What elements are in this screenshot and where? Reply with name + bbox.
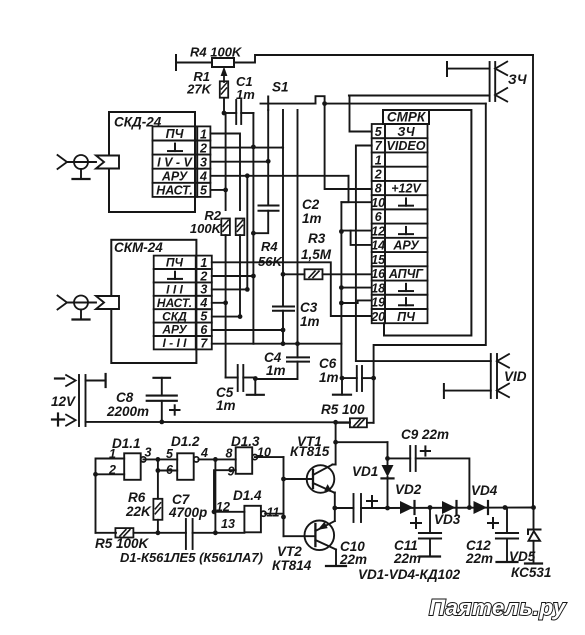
svg-text:VD5: VD5 [509, 549, 536, 564]
block СКД-24 outline [109, 112, 195, 212]
label C10 [340, 539, 365, 554]
svg-text:VD1: VD1 [352, 464, 378, 479]
label R1 [193, 69, 210, 84]
label 1m value of C6 [319, 370, 339, 385]
pin number box 18 of СМРК [372, 281, 385, 295]
terminal bar on 12V minus [104, 374, 106, 387]
capacitor C10 22m plates [354, 494, 362, 522]
node pin 18 ground junction [339, 285, 344, 290]
svg-text:9: 9 [228, 465, 235, 479]
pin number box 10 of СМРК [372, 195, 385, 209]
pin number 6 of СМРК [375, 210, 383, 224]
svg-text:R6: R6 [128, 490, 146, 505]
wire СМРК pin 5 ЗЧ [350, 96, 372, 132]
wire VID ground lead [444, 390, 491, 392]
pin number 4 of СКД-24 [199, 170, 207, 184]
capacitor C12 22m plates [496, 533, 518, 539]
wire C6 to R5 [373, 378, 375, 423]
pin name НАСТ. of СКМ-24 [157, 296, 192, 310]
wire +12V rail [86, 421, 351, 423]
block СМРК pin name table [385, 124, 428, 323]
pin number box 6 of СКМ-24 [196, 323, 212, 336]
svg-text:D1.1: D1.1 [112, 436, 141, 451]
label S1 [272, 80, 289, 95]
label VD2 [395, 482, 422, 497]
wire S1 line crossover bump [316, 96, 325, 103]
svg-text:C3: C3 [300, 300, 318, 315]
pin number box 15 of СМРК [372, 252, 385, 266]
pin 6 of D1.2 [166, 463, 174, 477]
node R4 56K to СКМ СКД pin [238, 314, 243, 319]
antenna input 1 arrow [58, 155, 68, 169]
label plus of C10 [367, 496, 377, 506]
svg-text:R5 100K: R5 100K [95, 536, 150, 551]
ground below C5 [247, 379, 264, 395]
label КТ814 value of VT2 [272, 558, 312, 573]
pin number 1 of СКД-24 [200, 127, 207, 141]
connector 12V body bars [79, 375, 86, 426]
label 22m value of C10 [339, 552, 367, 567]
capacitor C11 22m plates [419, 533, 441, 539]
antenna 2 plug into СКМ-24 [96, 296, 119, 309]
wire C1 right lead [241, 112, 253, 114]
svg-text:1m: 1m [319, 370, 339, 385]
label VD3 [434, 512, 461, 527]
wire C2 top lead [267, 161, 269, 205]
pin number 6 of СКМ-24 [200, 323, 208, 337]
connector ЗЧ terminal bar [446, 62, 448, 76]
svg-text:СКД: СКД [162, 309, 187, 323]
node R6/D1.2 pin6 junction [156, 468, 161, 473]
resistor R4 100K (potentiometer) [212, 58, 234, 67]
antenna 2 coax connector circle [74, 296, 88, 310]
pin number 1 of СМРК [375, 153, 382, 167]
node VT1 base junction [281, 477, 286, 482]
connector 12V minus arrow [66, 375, 76, 386]
wire D1.1 output to D1.2 pin 5 [143, 458, 177, 460]
pin number box 2 of СМРК [372, 167, 385, 181]
pin name АРУ of СКМ-24 [161, 323, 187, 337]
wire VT1 collector to VD1 [336, 442, 388, 465]
pin 3 of D1.1 [145, 446, 152, 460]
label minus of 12V input [55, 377, 64, 379]
connector ЗЧ bottom pin arrow [495, 88, 507, 102]
pin 11 of D1.4 [267, 506, 280, 520]
pin name ПЧ of СКМ-24 [166, 256, 184, 270]
node C2 to ground bus [251, 231, 256, 236]
svg-text:3: 3 [200, 155, 207, 169]
wire C11 top lead [429, 508, 431, 534]
pin name I - I I of СКМ-24 [163, 336, 188, 350]
svg-text:КС531: КС531 [511, 565, 551, 580]
pin 12 of D1.4 [216, 500, 230, 514]
pin number box 3 of СКМ-24 [196, 282, 212, 295]
pin symbol ⊥ СМРК pin 12 [399, 227, 413, 234]
svg-text:ЗЧ: ЗЧ [508, 72, 527, 87]
node C12 top junction [503, 505, 508, 510]
pin number box 4 of СКМ-24 [196, 296, 212, 309]
pin symbol ⊥ СМРК pin 19 [399, 298, 413, 305]
svg-text:R4: R4 [261, 239, 278, 254]
pin number box 5 of СКД-24 [197, 183, 210, 197]
svg-text:18: 18 [371, 281, 385, 295]
wire VT1 collector [333, 422, 336, 464]
label R3 [308, 231, 326, 246]
wire C8 top lead [161, 378, 163, 396]
wire D1.2 output to D1.3 pin 8 [198, 458, 235, 460]
svg-text:3: 3 [200, 283, 207, 297]
svg-text:5: 5 [375, 125, 383, 139]
pin number box 8 of СМРК [372, 181, 385, 195]
label VT1 [297, 434, 322, 449]
label D1.2 [171, 434, 200, 449]
resistor R5 100 [350, 418, 367, 427]
pin number box 5 of СМРК [372, 124, 385, 138]
node СКМ pin 3 junction [245, 287, 250, 292]
wire СКМ pin 1 ПЧ to СМРК pin 20 [212, 262, 372, 316]
wire R5 left lead [336, 422, 350, 424]
capacitor C5 1m plates [238, 365, 244, 391]
node D1.1 output junction [156, 457, 161, 462]
pin symbol ⊥ СКМ-24 pin 2 [168, 272, 182, 279]
svg-text:I V - V: I V - V [157, 155, 193, 169]
resistor R6 22K [153, 499, 162, 520]
label 2200m value of C8 [106, 404, 149, 419]
label 1,5M value of R3 [301, 247, 332, 262]
wire СКД pin 5 НАСТ [210, 189, 225, 191]
label R4 100K [190, 45, 243, 60]
svg-text:КТ814: КТ814 [272, 558, 312, 573]
svg-text:АРУ: АРУ [392, 239, 420, 253]
wire right rail down to rectifier node [532, 55, 534, 508]
svg-text:22K: 22K [125, 504, 152, 519]
switch S1 terminal bar [267, 97, 269, 111]
pin 1 of D1.1 [109, 447, 116, 461]
pin number 10 of СМРК [371, 196, 385, 210]
wire D1.1 input pins 1-2 [96, 459, 125, 533]
pin number box 7 of СМРК [372, 138, 385, 152]
label plus of C8 [170, 405, 180, 414]
pin symbol ⊥ СМРК pin 10 [399, 198, 413, 205]
logic gate D1.1 [124, 453, 146, 480]
pin number 7 of СКМ-24 [200, 336, 208, 350]
wire СКД pin 1 ПЧ [210, 134, 240, 211]
label VD4 [471, 483, 498, 498]
label R6 [128, 490, 146, 505]
label 27K value of R1 [186, 82, 212, 97]
wire АРУ line corner to pin 10 [341, 176, 348, 202]
pin name I V - V of СКД-24 [157, 155, 193, 169]
svg-text:R3: R3 [308, 231, 326, 246]
node СКМ pin 2 ground junction [251, 274, 256, 279]
wire C1 bus down [252, 113, 254, 344]
block СМРК title box [383, 110, 429, 124]
block СКМ-24 outline [111, 240, 196, 363]
wire СКМ pin 2 ⊥ [212, 275, 254, 277]
svg-text:СКМ-24: СКМ-24 [114, 240, 163, 255]
pin number box 1 of СМРК [372, 152, 385, 166]
wire output node line [335, 507, 354, 509]
svg-text:Паятель.ру: Паятель.ру [429, 595, 567, 620]
diode VD4 [474, 501, 489, 514]
node VT1 collector to rail [333, 420, 338, 425]
wire S1 line [261, 103, 316, 105]
wire C6 left lead [342, 377, 357, 379]
svg-text:КТ815: КТ815 [290, 444, 330, 459]
node IV-V junction [266, 159, 271, 164]
wire СМРК pin 19 ⊥ [341, 300, 371, 303]
wire band bus down from S1 area [282, 110, 284, 274]
pin name +12V of СМРК pin 8 [391, 182, 422, 196]
svg-text:+12V: +12V [391, 182, 422, 196]
antenna 1 plug into СКД-24 [96, 156, 119, 169]
pin number box 4 of СКД-24 [197, 169, 210, 183]
node СКМ НАСТ junction [223, 300, 228, 305]
pin number 12 of СМРК [371, 224, 385, 238]
wire АРУ bus down [246, 176, 248, 290]
diode VD1 [382, 465, 394, 508]
label plus of C9 [421, 446, 430, 455]
node VD1 bottom junction [385, 506, 390, 511]
pin 4 of D1.2 [200, 446, 208, 460]
pin number 3 of СКД-24 [200, 155, 207, 169]
wire R5 100K feedback line [96, 532, 117, 534]
wire R4 56K bus lower [239, 235, 241, 317]
svg-text:VID: VID [504, 369, 527, 384]
ground below antenna 1 [73, 169, 90, 179]
wire C4 top lead [297, 344, 299, 358]
label VT2 [277, 544, 302, 559]
wire СКД pin 4 АРУ line [210, 175, 348, 177]
label VD1-VD4 type [358, 567, 461, 582]
svg-text:НАСТ.: НАСТ. [156, 183, 193, 197]
svg-text:D1.4: D1.4 [233, 488, 262, 503]
pin number box 7 of СКМ-24 [196, 336, 212, 349]
node D1.2 output junction [213, 457, 218, 462]
svg-text:1,5M: 1,5M [301, 247, 332, 262]
wire C5 left lead [226, 377, 238, 379]
svg-text:6: 6 [375, 210, 383, 224]
label 100K value of R2 [190, 221, 223, 236]
wire base bus down [283, 457, 285, 536]
svg-text:АРУ: АРУ [161, 323, 187, 337]
label R5 100 [321, 402, 365, 417]
wire R4 wiper arrow [221, 67, 228, 83]
label C9 22m [401, 427, 449, 442]
svg-text:20: 20 [370, 310, 385, 324]
svg-text:VD1-VD4-КД102: VD1-VD4-КД102 [358, 567, 461, 582]
svg-text:СМРК: СМРК [387, 110, 427, 125]
wire C4 bottom lead [255, 362, 297, 379]
wire R4 right lead to top rail [234, 55, 533, 63]
wire C9 right lead [416, 458, 470, 507]
svg-text:11: 11 [267, 506, 280, 520]
logic gate D1.4 [244, 506, 266, 533]
svg-text:5: 5 [200, 310, 208, 324]
pin name НАСТ. of СКД-24 [156, 183, 193, 197]
svg-text:10: 10 [371, 196, 385, 210]
label КТ815 value of VT1 [290, 444, 330, 459]
connector VID top pin arrow [497, 354, 509, 368]
pin name ПЧ of СМРК pin 20 [397, 310, 416, 324]
transistor VT1 КТ815 [307, 465, 335, 493]
capacitor C1 1m plates [236, 100, 241, 124]
label СМРК [387, 110, 427, 125]
label C2 [302, 197, 320, 212]
node C6 right junction [371, 376, 376, 381]
label D1.3 [231, 434, 260, 449]
wire ground line [253, 343, 341, 345]
diode VD3 [442, 501, 457, 514]
capacitor C4 1m plates [287, 357, 309, 361]
wire C11 bottom lead [429, 539, 431, 557]
svg-text:27K: 27K [186, 82, 212, 97]
resistor R3 1,5M [305, 269, 323, 279]
node D1.1 pins junction [93, 472, 98, 477]
wire C5 right lead [243, 377, 255, 379]
svg-text:R5 100: R5 100 [321, 402, 365, 417]
node VD5 top junction [531, 505, 536, 510]
pin number 2 of СКД-24 [199, 141, 207, 155]
svg-text:I - I I: I - I I [163, 336, 188, 350]
wire band bus 2 down from S1 area [297, 110, 299, 344]
pin number 5 of СКД-24 [200, 184, 208, 198]
wire R3 right lead to АПЧГ pin 16 [323, 273, 372, 275]
label 12V [51, 394, 76, 409]
label R5 100K [95, 536, 150, 551]
pin symbol ⊥ СКД-24 pin 2 [168, 144, 182, 152]
pin number box 1 of СКД-24 [197, 126, 210, 140]
wire СМРК pin 7 VIDEO [356, 146, 372, 362]
block СКД-24 signal table [153, 126, 198, 196]
capacitor C8 2200m plates [147, 396, 177, 401]
pin number 15 of СМРК [371, 253, 386, 267]
svg-text:12V: 12V [51, 394, 76, 409]
wire IV-V band line from S1 [267, 110, 269, 161]
pin number box 16 of СМРК [372, 266, 385, 280]
wire C12 bottom lead [506, 539, 508, 563]
wire C2 bottom lead [253, 211, 268, 234]
svg-text:2: 2 [374, 168, 382, 182]
ground below VT2 [326, 565, 346, 567]
svg-text:4: 4 [200, 446, 208, 460]
node C6 left junction [340, 376, 345, 381]
watermark Паятель.ру [429, 595, 567, 620]
logic gate D1.3 [236, 447, 258, 474]
label C1 [236, 74, 253, 89]
wire СМРК pin 18 ⊥ [341, 287, 371, 289]
svg-text:VT2: VT2 [277, 544, 302, 559]
wire D1.4 output [265, 513, 283, 515]
wire C9 left lead [388, 457, 411, 459]
label plus of C12 [488, 518, 498, 528]
svg-text:19: 19 [371, 296, 385, 310]
node C8 on +12V rail [159, 420, 164, 425]
pin 9 of D1.3 [228, 465, 235, 479]
wire R5 100K to C7 [133, 532, 186, 534]
pin name АРУ of СМРК pin 14 [392, 239, 420, 253]
node C7/D1.2 output junction [213, 530, 218, 535]
block СКМ-24 signal table [154, 256, 196, 350]
wire C3 bottom lead [282, 311, 284, 344]
label D1.4 [233, 488, 262, 503]
wire СМРК pin 12 ⊥ [341, 230, 371, 232]
resistor R4 56K [236, 219, 245, 236]
label 1m value of C5 [216, 398, 236, 413]
ground below VD5 [525, 562, 542, 564]
label C4 [264, 350, 282, 365]
svg-text:S1: S1 [272, 80, 289, 95]
svg-text:1: 1 [375, 153, 382, 167]
wire СКМ pin 4 НАСТ [212, 302, 226, 304]
capacitor C3 1m plates [273, 307, 294, 311]
svg-text:2200m: 2200m [106, 404, 149, 419]
pin number 19 of СМРК [371, 296, 385, 310]
svg-text:R4 100K: R4 100K [190, 45, 243, 60]
svg-text:4: 4 [199, 170, 207, 184]
svg-text:3: 3 [145, 446, 152, 460]
svg-text:I I I: I I I [166, 283, 183, 297]
wire S1 line right portion [325, 103, 486, 105]
node СКМ pin 6 junction [281, 328, 286, 333]
ground below antenna 2 [73, 310, 90, 320]
label КС531 value of VD5 [511, 565, 551, 580]
pin number box 20 of СМРК [372, 309, 385, 323]
svg-text:1: 1 [200, 127, 207, 141]
svg-text:C2: C2 [302, 197, 320, 212]
wire ЗЧ to СМРК pin 5 [349, 95, 490, 97]
pin number box 19 of СМРК [372, 295, 385, 309]
label plus of 12V input [52, 414, 64, 426]
wire VT2 emitter to output node [334, 508, 336, 521]
svg-text:4700p: 4700p [168, 505, 207, 520]
wire rectifier output line [388, 507, 534, 510]
label C11 [394, 538, 418, 553]
svg-text:7: 7 [375, 139, 383, 153]
node S1 line junction [322, 101, 327, 106]
wire C6 right lead [362, 377, 374, 379]
pin number 2 of СКМ-24 [199, 269, 207, 283]
label R4 56K [258, 239, 283, 269]
svg-text:12: 12 [371, 224, 385, 238]
svg-text:1m: 1m [216, 398, 236, 413]
svg-text:VD2: VD2 [395, 482, 422, 497]
node R3/C3 junction [281, 272, 286, 277]
connector VID bottom pin arrow [497, 384, 509, 398]
wire R4 left terminal [176, 55, 212, 70]
svg-text:16: 16 [371, 267, 386, 281]
svg-text:22m: 22m [393, 551, 421, 566]
ground below C11 [420, 555, 440, 557]
pin number 4 of СКМ-24 [199, 296, 207, 310]
node D1.4 output junction [281, 515, 286, 520]
label C5 [216, 385, 234, 400]
pin symbol ⊥ СМРК pin 18 [399, 284, 413, 291]
pin name ПЧ of СКД-24 [166, 127, 185, 141]
svg-text:5: 5 [200, 184, 208, 198]
svg-text:6: 6 [200, 323, 208, 337]
wire 12V minus lead to terminal [86, 380, 106, 382]
resistor R2 100K [221, 219, 230, 236]
wire НАСТ bus [225, 113, 227, 210]
wire ЗЧ tip lead [447, 68, 490, 70]
label VD1 [352, 464, 378, 479]
pin number box 14 of СМРК [372, 238, 385, 252]
wire antenna 1 lead [67, 161, 96, 163]
capacitor C7 4700p plates [186, 519, 193, 549]
logic gate D1.2 [177, 453, 199, 480]
node C9 left junction [385, 456, 390, 461]
